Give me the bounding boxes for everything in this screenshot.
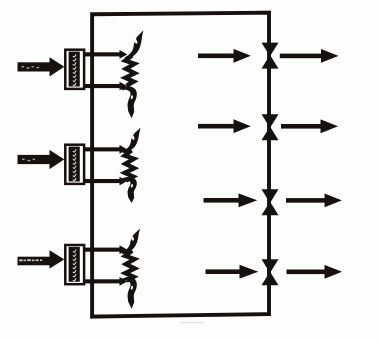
outflow arrow row 1 — [280, 49, 339, 63]
scan artifact dash — [180, 322, 204, 323]
valve V4 — [262, 259, 279, 285]
inlet arrow 3 — [18, 250, 65, 268]
inlet arrow 1 — [18, 57, 65, 76]
wire: lower feed line 2 — [84, 177, 127, 186]
wire: upper feed line 1 — [84, 50, 127, 59]
wire: chamber loop rectangle — [92, 13, 269, 317]
inlet arrow 2 — [18, 150, 65, 169]
injector grid box 1 — [65, 50, 84, 89]
flame squiggle 2 — [122, 128, 141, 203]
outflow arrow row 2 — [281, 119, 338, 133]
flame squiggle 3 — [121, 229, 140, 309]
valve V1 — [262, 43, 279, 69]
outflow arrow row 4 — [287, 265, 343, 279]
injector grid box 3 — [65, 245, 84, 284]
wire: lower feed line 3 — [84, 277, 127, 286]
valve V2 — [262, 114, 279, 140]
outflow arrow row 3 — [286, 194, 342, 208]
inflow arrow row 4 — [206, 265, 259, 279]
inflow arrow row 1 — [198, 49, 251, 63]
flame squiggle 1 — [122, 30, 144, 118]
wire: upper feed line 3 — [84, 245, 127, 254]
valve V3 — [262, 189, 279, 215]
injector grid box 2 — [65, 145, 84, 184]
wire: upper feed line 2 — [84, 145, 127, 154]
inflow arrow row 3 — [204, 193, 258, 207]
inflow arrow row 2 — [198, 119, 251, 133]
wire: lower feed line 1 — [84, 82, 127, 91]
